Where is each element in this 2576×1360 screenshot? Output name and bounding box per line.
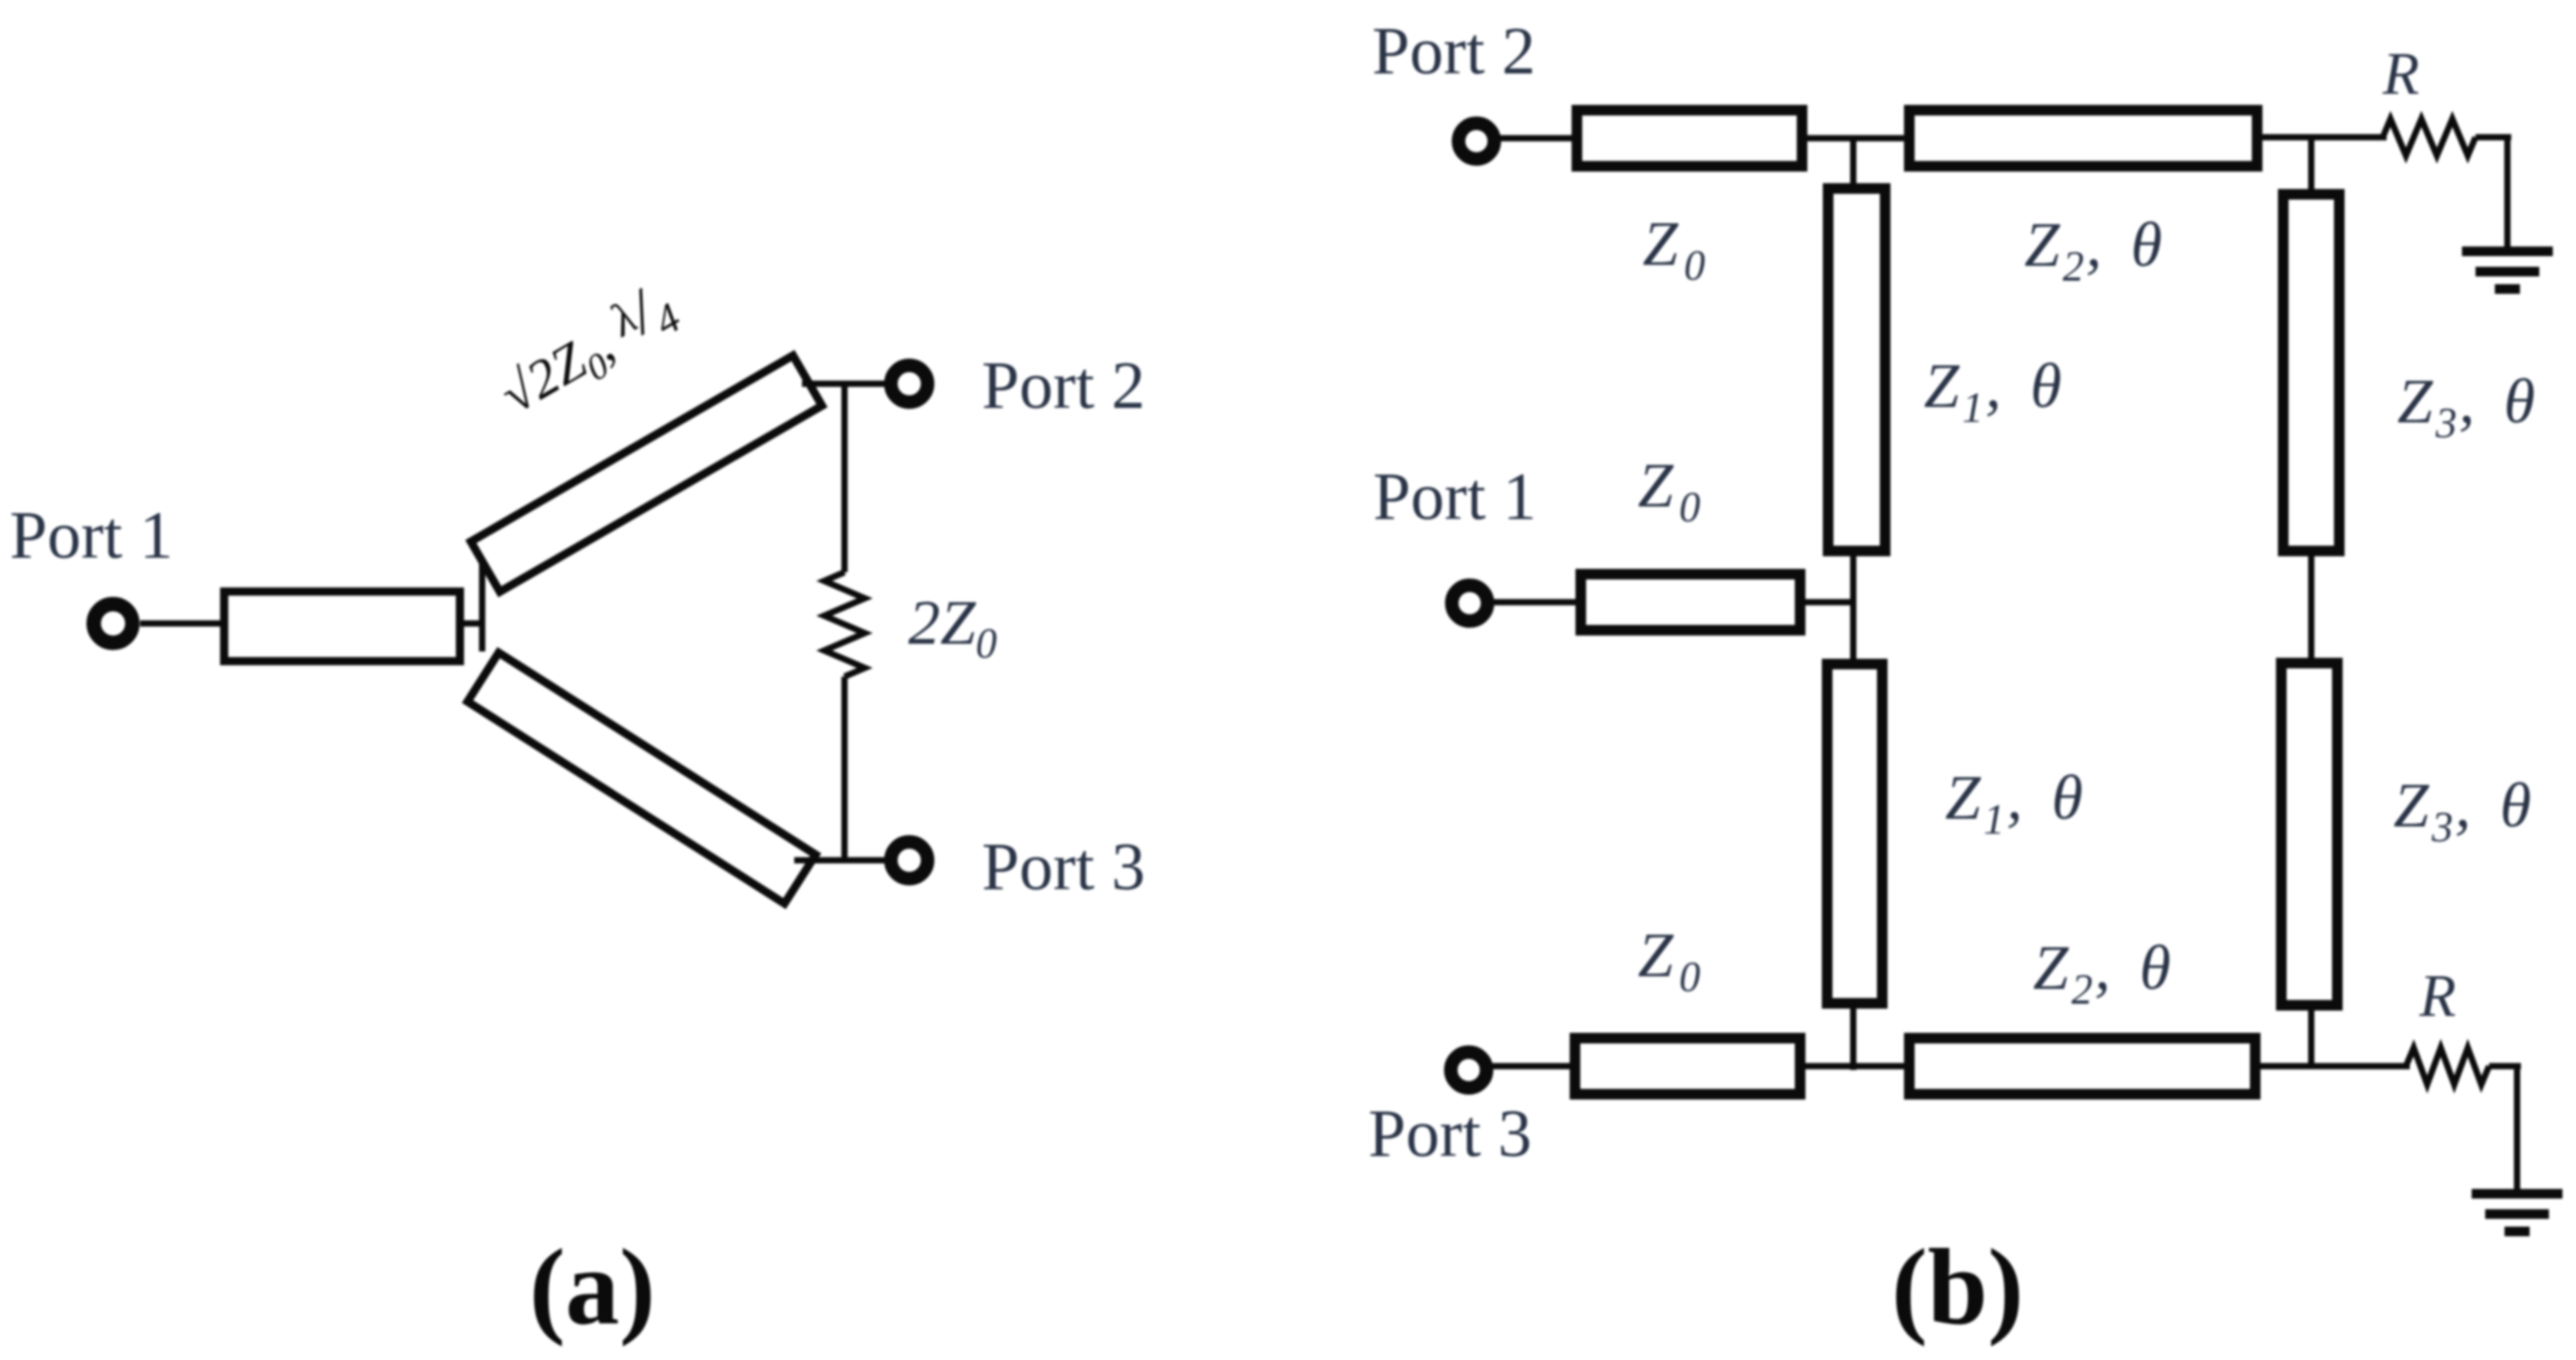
label Z2,theta bottom bbox=[2033, 933, 2171, 1013]
wire vertical upper (a) bbox=[842, 384, 848, 572]
transmission line Z2 top (b) bbox=[1909, 110, 2257, 166]
wire Z2 bottom to resistor R bottom (b) bbox=[2251, 1063, 2410, 1070]
svg-text:Z2,θ: Z2,θ bbox=[2024, 210, 2162, 290]
caption (a) bbox=[530, 1228, 656, 1347]
svg-text:(b): (b) bbox=[1892, 1228, 2024, 1347]
label Port 2 (a) bbox=[982, 349, 1145, 423]
transmission line Z0 bottom (b) bbox=[1575, 1038, 1800, 1094]
wire junction down to Z3 top (b) bbox=[2308, 137, 2315, 196]
label R bottom bbox=[2419, 964, 2456, 1029]
transmission line Z3 bottom vertical (b) bbox=[2281, 663, 2337, 1005]
resistor R bottom (b) bbox=[2406, 1048, 2489, 1085]
label Port 1 (b) bbox=[1373, 460, 1536, 535]
label sqrt2 Z0, lambda/4 bbox=[484, 267, 690, 432]
label 2Z0 value (a) bbox=[908, 588, 997, 667]
transmission line Z0 top (b) bbox=[1577, 110, 1802, 166]
wire Z0 mid to junction (b) bbox=[1796, 599, 1853, 606]
ground top (b) bbox=[2462, 251, 2553, 289]
label R top bbox=[2382, 42, 2419, 107]
transmission line Z0 middle (b) bbox=[1581, 574, 1800, 630]
svg-text:Port 1: Port 1 bbox=[1373, 460, 1536, 535]
port terminal Port 2 (b) bbox=[1459, 124, 1495, 159]
label Z3,theta top bbox=[2397, 366, 2535, 447]
transmission line lower branch (a) bbox=[468, 652, 816, 904]
wire to Port 2 (a) bbox=[802, 381, 889, 388]
wire Port3 to Z0 bottom (b) bbox=[1492, 1063, 1581, 1070]
wire junction vertical (a) bbox=[479, 537, 486, 651]
port terminal Port 2 (a) bbox=[891, 365, 928, 402]
wire Z0 to Z2 top (b) bbox=[1800, 135, 1911, 142]
label Port 3 (a) bbox=[982, 830, 1145, 905]
label Z2,theta top bbox=[2024, 210, 2162, 290]
transmission line Z2 bottom (b) bbox=[1909, 1038, 2255, 1094]
ground bottom (b) bbox=[2472, 1194, 2562, 1231]
port terminal Port 1 (a) bbox=[94, 604, 132, 643]
port terminal Port 3 (a) bbox=[891, 842, 928, 879]
wire junction down to Z1 top (b) bbox=[1850, 138, 1857, 190]
svg-text:R: R bbox=[2382, 42, 2419, 107]
wire Z3 mid vertical (b) bbox=[2308, 549, 2315, 665]
svg-text:Z2,θ: Z2,θ bbox=[2033, 933, 2171, 1013]
label Port 1 (a) bbox=[10, 499, 173, 573]
label Z0 top bbox=[1643, 209, 1705, 289]
transmission line Z3 top vertical (b) bbox=[2283, 194, 2339, 551]
svg-text:Port 3: Port 3 bbox=[1368, 1097, 1531, 1172]
wire Z3 bottom to port3 row (b) bbox=[2308, 1003, 2315, 1066]
wire R to ground bottom (b) bbox=[2489, 1066, 2521, 1192]
svg-text:(a): (a) bbox=[530, 1228, 656, 1347]
svg-text:Z1,θ: Z1,θ bbox=[1945, 763, 2083, 843]
wire junction stub (a) bbox=[460, 621, 482, 627]
label Z3,theta bottom bbox=[2393, 770, 2532, 851]
wire Z1 bottom to port3 row (b) bbox=[1850, 1001, 1857, 1070]
label Port 2 (b) bbox=[1372, 14, 1535, 89]
label Z0 middle bbox=[1638, 450, 1701, 531]
wire R to ground top (b) bbox=[2476, 137, 2511, 249]
transmission line Z1 top vertical (b) bbox=[1828, 188, 1885, 551]
svg-text:R: R bbox=[2419, 964, 2456, 1029]
label Port 3 (b) bbox=[1368, 1097, 1531, 1172]
svg-text:Z3,θ: Z3,θ bbox=[2397, 366, 2535, 447]
wire to Port 3 (a) bbox=[794, 857, 889, 864]
resistor 2Z0 (a) bbox=[824, 572, 865, 677]
transmission line Z1 bottom vertical (b) bbox=[1827, 664, 1882, 1003]
svg-text:Port 3: Port 3 bbox=[982, 830, 1145, 905]
caption (b) bbox=[1892, 1228, 2024, 1347]
transmission line upper branch sqrt2Z0 lambda/4 (a) bbox=[471, 356, 821, 592]
wire Z0 bottom to Z2 bottom (b) bbox=[1796, 1063, 1913, 1070]
svg-text:Port 2: Port 2 bbox=[982, 349, 1145, 423]
transmission line input Z0 (a) bbox=[224, 592, 460, 661]
resistor R top (b) bbox=[2383, 119, 2476, 156]
wire Port1 to Z0 mid (b) bbox=[1493, 599, 1587, 606]
svg-text:Port 2: Port 2 bbox=[1372, 14, 1535, 89]
port terminal Port 3 (b) bbox=[1451, 1053, 1487, 1088]
wire vertical lower (a) bbox=[842, 677, 848, 860]
label Z0 bottom bbox=[1638, 920, 1701, 1000]
label Z1,theta bottom bbox=[1945, 763, 2083, 843]
wire Port2 to Z0 (b) bbox=[1500, 135, 1583, 142]
wire Z2 to resistor R top (b) bbox=[2253, 134, 2387, 141]
wire Port1 to line (a) bbox=[140, 621, 226, 627]
svg-text:Z1,θ: Z1,θ bbox=[1924, 351, 2062, 431]
label Z1,theta top bbox=[1924, 351, 2062, 431]
wire Z1 junction vertical (b) bbox=[1850, 549, 1857, 666]
svg-text:Port 1: Port 1 bbox=[10, 499, 173, 573]
svg-text:Z3,θ: Z3,θ bbox=[2393, 770, 2532, 851]
port terminal Port 1 (b) bbox=[1452, 586, 1488, 622]
